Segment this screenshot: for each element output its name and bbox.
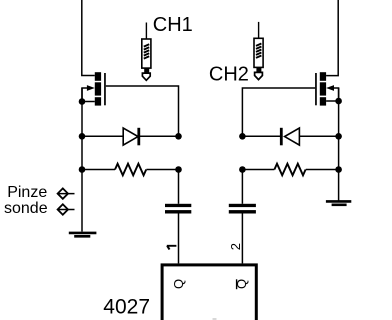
transistor Q1 (left N-MOSFET) xyxy=(82,72,106,105)
probe CH2 xyxy=(254,22,263,80)
node dots right resistor row xyxy=(239,166,342,173)
node: Q2 source junction xyxy=(335,98,342,105)
wire left supply rail xyxy=(82,0,95,76)
node dots right diode row xyxy=(239,133,342,140)
diode D2 xyxy=(280,128,300,146)
capacitor C1 xyxy=(165,204,191,214)
svg-text:Q: Q xyxy=(171,279,186,289)
wire Q1 gate to left network right column xyxy=(106,86,179,136)
node dots left diode row xyxy=(79,133,182,140)
svg-text:CH2: CH2 xyxy=(209,63,249,85)
resistor R2 xyxy=(274,164,305,176)
probe CH1 xyxy=(142,23,151,81)
svg-text:sonde: sonde xyxy=(4,200,48,217)
transistor Q2 (right N-MOSFET) xyxy=(315,72,339,105)
ground left xyxy=(69,233,97,236)
wire Q2 gate to right network left column xyxy=(242,88,315,136)
wire C2 to pin 2 xyxy=(241,214,243,264)
pin number 1 xyxy=(167,246,177,250)
label CH1 xyxy=(153,14,193,36)
svg-text:CH1: CH1 xyxy=(153,14,193,36)
svg-text:2: 2 xyxy=(228,243,243,250)
node: Q1 source junction xyxy=(79,98,86,105)
ground right xyxy=(326,201,351,204)
svg-text:4027: 4027 xyxy=(103,296,150,319)
label CH2 xyxy=(209,63,249,85)
pin label Q xyxy=(171,279,186,289)
connector clip 1 (Pinze) xyxy=(58,188,75,198)
diode D1 xyxy=(123,128,140,146)
capacitor C2 xyxy=(229,204,256,214)
wire C1 to pin 1 xyxy=(178,214,180,264)
wire right diode row xyxy=(242,135,338,137)
label 4027 xyxy=(103,296,150,319)
label Pinze xyxy=(7,184,47,201)
wire left diode row xyxy=(82,135,179,137)
wire right supply rail xyxy=(326,0,338,76)
label sonde xyxy=(4,200,48,217)
node dots left resistor row xyxy=(79,166,182,173)
wire left resistor row xyxy=(82,169,179,171)
wire left cap column upper xyxy=(178,170,180,204)
IC U1 (4027) box xyxy=(162,265,256,320)
pin number 2 xyxy=(228,243,243,250)
wire left rail down xyxy=(81,88,83,232)
wire right resistor row xyxy=(242,169,338,171)
resistor R1 xyxy=(115,164,146,176)
svg-text:Pinze: Pinze xyxy=(7,184,47,201)
wire right rail down xyxy=(338,88,340,201)
faint partial glyph at image bottom edge xyxy=(213,318,217,320)
pin label Q-bar xyxy=(234,279,249,289)
wire right cap column upper xyxy=(241,170,243,204)
connector clip 2 (sonde) xyxy=(58,204,75,214)
